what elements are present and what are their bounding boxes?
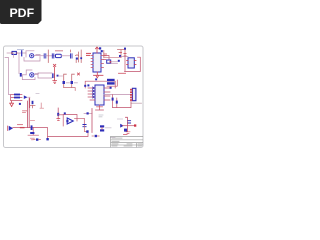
- label: [36, 93, 39, 95]
- port arrow A1: [24, 95, 28, 99]
- resistor R6 marks: [21, 127, 24, 129]
- wire chain2: [22, 74, 26, 76]
- label net1: [36, 54, 40, 56]
- long wire to J1: [104, 94, 131, 96]
- node dot: [86, 130, 88, 132]
- capacitor C5 vertical: [63, 74, 70, 87]
- label: [35, 73, 38, 75]
- connector J1: [130, 88, 136, 101]
- wire to relay: [121, 56, 128, 58]
- ground GND3: [30, 138, 34, 140]
- node dot below resistors: [19, 103, 21, 105]
- wire drop: [28, 128, 39, 136]
- label gray small: [99, 115, 103, 117]
- PDF badge: [0, 0, 42, 24]
- capacitor C9: [31, 125, 33, 130]
- supply drop right: [91, 109, 93, 133]
- schematic page: [4, 46, 144, 148]
- capacitor C2: [44, 54, 46, 58]
- node dots: [64, 112, 66, 114]
- top feedback wire U2: [85, 81, 115, 88]
- capacitor C4: [71, 54, 73, 58]
- pullup divider rails: [118, 48, 127, 62]
- ground GND4: [126, 132, 130, 134]
- comparator loop: [63, 115, 84, 127]
- wire stub: [13, 53, 15, 58]
- title block text: [112, 138, 142, 146]
- decoupling caps C12 C13: [112, 95, 118, 108]
- double supply drop: [27, 99, 29, 128]
- wire: [17, 52, 26, 54]
- label faint: [31, 120, 35, 122]
- capacitor C3: [52, 54, 54, 58]
- capacitor C15: [124, 129, 127, 132]
- label above title block: [124, 134, 128, 136]
- capacitor C1: [21, 51, 23, 56]
- diode D2: [33, 138, 41, 140]
- capacitor C11: [83, 125, 87, 132]
- transistor Q4: [30, 73, 34, 77]
- bus entry bars: [107, 79, 117, 86]
- node dots: [84, 85, 86, 87]
- diode D1: [107, 60, 112, 63]
- sub cluster cap: [30, 98, 35, 108]
- wire U1 right loop: [104, 56, 110, 60]
- capacitor C6 vertical: [71, 74, 78, 87]
- relay K1: [127, 58, 137, 68]
- wire: [46, 55, 55, 57]
- node dot top: [84, 112, 92, 114]
- capacitor C7 chain2: [20, 73, 22, 77]
- ground GND1: [53, 81, 57, 84]
- wire branch right: [33, 128, 47, 138]
- wire: [111, 62, 118, 64]
- ground GND2: [10, 101, 14, 107]
- transistor Q2: [76, 52, 79, 63]
- svg-text:PDF: PDF: [9, 6, 34, 20]
- port arrow P2: [120, 124, 136, 128]
- power stub: [70, 50, 72, 52]
- op-amp U1: [91, 53, 104, 72]
- transistor Q3 top right: [101, 50, 107, 58]
- diode D3: [46, 138, 48, 140]
- node dot: [57, 75, 59, 77]
- crystal Y1: [100, 125, 111, 131]
- wire vertical drop: [18, 53, 20, 74]
- label IN: [18, 124, 23, 126]
- label K1: [119, 72, 126, 74]
- wire loop Q4: [22, 70, 35, 80]
- capacitor C10: [30, 132, 34, 134]
- transistor Q1: [30, 54, 34, 58]
- wire feedback loop Q1: [24, 51, 40, 61]
- capacitor C8: [52, 74, 54, 78]
- capacitor C14: [128, 121, 131, 123]
- wire pair to filter: [38, 73, 52, 78]
- wire: [61, 55, 70, 57]
- input port P1: [8, 126, 14, 131]
- power rail X: [53, 64, 55, 80]
- ground bus J1: [113, 101, 131, 107]
- wire bus horizontal: [13, 127, 33, 129]
- label U1 net names: [87, 53, 91, 55]
- op-amp U3: [66, 118, 73, 124]
- wire out: [58, 75, 63, 77]
- long bottom wire: [48, 131, 88, 137]
- wire cap bottoms: [64, 88, 75, 91]
- node junction rail: [80, 50, 82, 63]
- U2 ground: [96, 105, 104, 110]
- node dot Q5: [92, 135, 99, 137]
- power angle stub: [40, 103, 44, 108]
- label J1: [131, 102, 142, 104]
- resistor R2: [56, 54, 62, 57]
- wire Q4 out: [34, 74, 38, 76]
- VCC arrow U1: [96, 47, 102, 53]
- wire Q1 out: [34, 55, 44, 57]
- MCU U2: [88, 85, 110, 105]
- label mid right: [118, 118, 123, 120]
- label above chain1: [18, 49, 24, 51]
- VCC mark: [78, 73, 80, 75]
- wire comparator input: [58, 114, 63, 116]
- wire to divider: [104, 57, 121, 59]
- relay K1 coil loop: [125, 57, 141, 72]
- label: [111, 137, 116, 139]
- label near supply drop: [23, 111, 27, 113]
- ground U1: [94, 72, 104, 78]
- RC cluster rail: [126, 117, 128, 131]
- resistor R1: [11, 51, 17, 54]
- wire left drop: [5, 58, 11, 95]
- title block: [111, 136, 143, 147]
- power rail stub: [47, 50, 49, 63]
- wire input stub chain1: [7, 52, 12, 54]
- resistor network R4 R5: [11, 94, 22, 101]
- label R2 value: [56, 50, 63, 52]
- wire: [28, 96, 31, 98]
- RC string left of comparator: [57, 108, 60, 120]
